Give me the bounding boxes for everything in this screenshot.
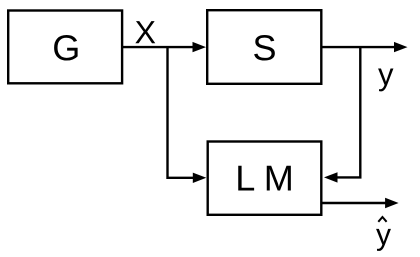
label y [378, 69, 393, 92]
wire X: G output to S input [123, 42, 206, 52]
block G [8, 11, 122, 84]
label y-hat (circumflex over y) [376, 217, 391, 251]
block LM [208, 142, 322, 215]
wire LM output y-hat [323, 198, 399, 208]
wire branch: X node down and into LM input [168, 47, 207, 183]
wire S output y [323, 42, 408, 52]
wire y feedback down into LM right side [324, 47, 360, 183]
node X label [135, 21, 155, 43]
block S [207, 10, 321, 84]
